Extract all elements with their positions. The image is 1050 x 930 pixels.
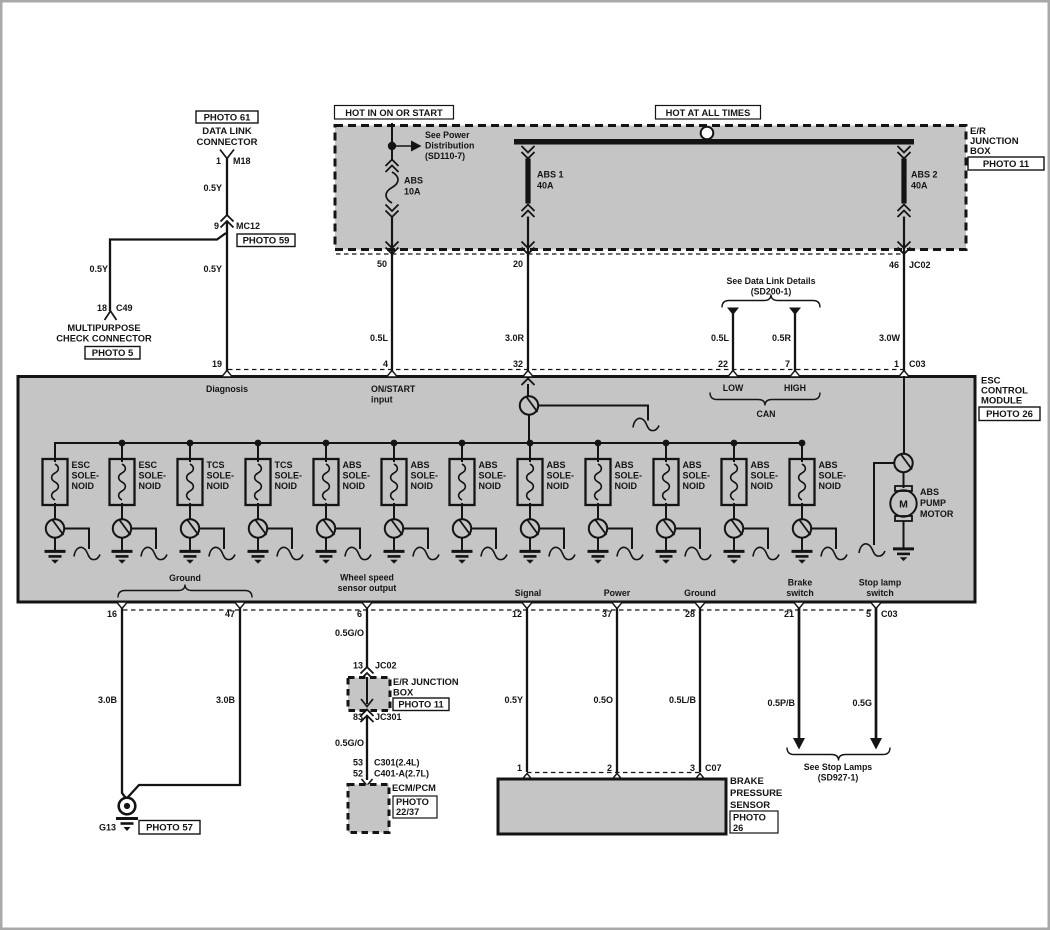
svg-text:NOID: NOID	[343, 481, 366, 491]
fuse ABS 2 40A	[898, 146, 911, 153]
svg-text:switch: switch	[786, 588, 813, 598]
svg-text:22/37: 22/37	[396, 807, 419, 817]
svg-text:switch: switch	[866, 588, 893, 598]
driver transistor for solenoid #4	[257, 503, 259, 520]
svg-text:ABS: ABS	[343, 460, 362, 470]
brake pressure sensor box	[498, 779, 726, 834]
svg-text:See Power: See Power	[425, 130, 470, 140]
svg-text:28: 28	[685, 609, 695, 619]
svg-text:NOID: NOID	[72, 481, 95, 491]
module bottom pin carets	[117, 602, 128, 609]
svg-text:SOLE-: SOLE-	[615, 471, 643, 481]
svg-text:1: 1	[216, 156, 221, 166]
svg-text:0.5Y: 0.5Y	[504, 695, 523, 705]
wire pin21 to stop lamps, 0.5P/B	[798, 608, 801, 740]
driver transistor for solenoid #3	[189, 503, 191, 520]
module top pin carets	[222, 371, 233, 378]
svg-text:SOLE-: SOLE-	[683, 471, 711, 481]
svg-text:NOID: NOID	[275, 481, 298, 491]
ABS pump motor M	[903, 472, 905, 488]
svg-text:C03: C03	[881, 609, 898, 619]
collector break squiggle for solenoid #8	[540, 529, 565, 550]
connector JC02 pin 13	[361, 667, 374, 674]
driver transistor for solenoid #5	[325, 503, 327, 520]
solenoid supply bus	[55, 443, 802, 459]
collector break squiggle for solenoid #12	[812, 529, 837, 550]
svg-text:PRESSURE: PRESSURE	[730, 788, 782, 799]
svg-text:NOID: NOID	[819, 481, 842, 491]
solenoid ABS #5	[325, 443, 327, 462]
ground G13	[119, 798, 136, 815]
svg-text:1: 1	[517, 763, 522, 773]
ground for solenoid #11	[733, 538, 735, 551]
svg-text:NOID: NOID	[751, 481, 774, 491]
driver transistor for solenoid #1	[54, 503, 56, 520]
svg-text:0.5R: 0.5R	[772, 333, 792, 343]
collector wire with break squiggle	[539, 406, 649, 421]
svg-text:40A: 40A	[537, 181, 554, 191]
svg-text:PHOTO 5: PHOTO 5	[92, 348, 134, 359]
svg-text:13: 13	[353, 661, 363, 671]
svg-text:0.5G/O: 0.5G/O	[335, 628, 364, 638]
collector break squiggle for solenoid #4	[268, 529, 293, 550]
label PHOTO 22/37	[393, 796, 437, 818]
wire M18 to MC12, 0.5Y	[226, 159, 228, 217]
svg-text:JC02: JC02	[909, 260, 931, 270]
label PHOTO 57	[139, 821, 200, 835]
svg-text:JC301: JC301	[375, 712, 402, 722]
ESC control module box	[18, 377, 975, 603]
svg-text:BRAKE: BRAKE	[730, 776, 764, 787]
svg-text:ESC: ESC	[139, 460, 158, 470]
solenoid ABS #12	[801, 443, 803, 462]
fuse ABS 1 40A	[522, 146, 535, 153]
svg-text:ABS: ABS	[819, 460, 838, 470]
svg-text:NOID: NOID	[479, 481, 502, 491]
CAN LOW stub wire 0.5L	[727, 308, 739, 316]
svg-text:ON/START: ON/START	[371, 384, 416, 394]
collector break squiggle for solenoid #2	[132, 529, 157, 550]
svg-text:MC12: MC12	[236, 221, 260, 231]
svg-text:0.5G: 0.5G	[852, 698, 872, 708]
wire pin46 to module pin1, 3.0W	[903, 255, 905, 374]
svg-text:1: 1	[894, 359, 899, 369]
svg-text:MULTIPURPOSE: MULTIPURPOSE	[67, 323, 140, 333]
wire pin47 to G13, 3.0B	[128, 608, 240, 797]
power bus bar	[514, 139, 914, 145]
label HOT IN ON OR START	[335, 106, 454, 120]
svg-text:5: 5	[866, 609, 871, 619]
connector strip dashed line above sensor	[527, 772, 700, 774]
solenoid ESC #2	[121, 443, 123, 462]
svg-text:ABS 2: ABS 2	[911, 170, 938, 180]
ground for solenoid #2	[121, 538, 123, 551]
stop lamp switch sense wire with break squiggle	[874, 463, 895, 545]
svg-text:CHECK CONNECTOR: CHECK CONNECTOR	[56, 334, 152, 344]
svg-text:ABS: ABS	[615, 460, 634, 470]
svg-text:(SD110-7): (SD110-7)	[425, 151, 465, 161]
svg-text:0.5Y: 0.5Y	[203, 264, 222, 274]
svg-text:26: 26	[733, 823, 743, 833]
svg-text:(SD927-1): (SD927-1)	[818, 773, 859, 783]
solenoid ABS #11	[733, 443, 735, 462]
svg-text:0.5L: 0.5L	[711, 333, 730, 343]
svg-text:ABS: ABS	[479, 460, 498, 470]
svg-text:SOLE-: SOLE-	[411, 471, 439, 481]
connector M18 pin 1	[220, 150, 234, 159]
svg-text:BOX: BOX	[970, 146, 991, 157]
connector strip line below junction box	[336, 253, 903, 255]
ground for solenoid #12	[801, 538, 803, 551]
svg-text:10A: 10A	[404, 187, 421, 197]
svg-text:6: 6	[357, 609, 362, 619]
svg-text:53: 53	[353, 758, 363, 768]
svg-text:Brake: Brake	[788, 578, 813, 588]
svg-text:C07: C07	[705, 763, 722, 773]
collector break squiggle for solenoid #3	[200, 529, 225, 550]
wire pin5 to stop lamps, 0.5G	[875, 608, 878, 740]
collector break squiggle for solenoid #9	[608, 529, 633, 550]
svg-text:46: 46	[889, 260, 899, 270]
collector break squiggle for solenoid #7	[472, 529, 497, 550]
ground for solenoid #8	[529, 538, 531, 551]
svg-text:E/R JUNCTION: E/R JUNCTION	[393, 677, 459, 687]
svg-text:Ground: Ground	[169, 573, 201, 583]
internal wire arrow	[366, 677, 368, 704]
collector break squiggle for solenoid #5	[336, 529, 361, 550]
svg-text:ABS 1: ABS 1	[537, 170, 564, 180]
label PHOTO 26 (sensor)	[730, 811, 778, 833]
svg-text:C301(2.4L): C301(2.4L)	[374, 758, 420, 768]
label PHOTO 11 (lower)	[393, 698, 449, 711]
svg-text:0.5G/O: 0.5G/O	[335, 738, 364, 748]
svg-text:NOID: NOID	[207, 481, 230, 491]
junction node dot	[388, 142, 396, 150]
svg-text:MODULE: MODULE	[981, 396, 1022, 407]
wire fuse ABS1 to pin 20	[527, 217, 529, 257]
brace over CAN stub wires	[722, 295, 820, 308]
svg-text:22: 22	[718, 359, 728, 369]
svg-text:3.0W: 3.0W	[879, 333, 901, 343]
svg-text:JC02: JC02	[375, 661, 397, 671]
solenoid ABS #6	[393, 443, 395, 462]
branch wire to multipurpose check connector, 0.5Y	[110, 233, 226, 311]
svg-text:40A: 40A	[911, 181, 928, 191]
wire fuse ABS10A to pin 50	[391, 217, 393, 257]
svg-text:SOLE-: SOLE-	[751, 471, 779, 481]
wire pin20 to module pin32, 3.0R	[527, 255, 529, 374]
svg-text:0.5P/B: 0.5P/B	[767, 698, 795, 708]
svg-text:HIGH: HIGH	[784, 383, 806, 393]
wire ignition feed into box	[391, 123, 393, 160]
ground for solenoid #6	[393, 538, 395, 551]
svg-text:C401-A(2.7L): C401-A(2.7L)	[374, 769, 429, 779]
svg-text:SOLE-: SOLE-	[207, 471, 235, 481]
svg-text:G13: G13	[99, 823, 116, 833]
wire fuse ABS2 to pin 46	[903, 217, 905, 257]
svg-text:12: 12	[512, 609, 522, 619]
svg-text:Diagnosis: Diagnosis	[206, 384, 248, 394]
ground for solenoid #5	[325, 538, 327, 551]
svg-text:Signal: Signal	[515, 588, 541, 598]
svg-text:47: 47	[225, 609, 235, 619]
solenoid ABS #10	[665, 443, 667, 462]
wire MC12 to module pin 19, 0.5Y	[226, 221, 228, 374]
svg-text:7: 7	[785, 359, 790, 369]
svg-text:HOT AT ALL TIMES: HOT AT ALL TIMES	[666, 108, 751, 118]
ground for solenoid #3	[189, 538, 191, 551]
driver transistor for solenoid #12	[801, 503, 803, 520]
svg-text:LOW: LOW	[723, 383, 744, 393]
svg-text:PHOTO 59: PHOTO 59	[243, 236, 290, 247]
svg-text:83: 83	[353, 712, 363, 722]
svg-text:PHOTO 57: PHOTO 57	[146, 823, 193, 834]
driver transistor for solenoid #8	[529, 503, 531, 520]
svg-text:0.5Y: 0.5Y	[89, 264, 108, 274]
svg-text:PHOTO 11: PHOTO 11	[983, 159, 1030, 170]
svg-text:NOID: NOID	[411, 481, 434, 491]
pin caret into ECM	[362, 779, 373, 786]
svg-text:sensor output: sensor output	[338, 583, 397, 593]
svg-text:ABS: ABS	[920, 487, 939, 497]
ground for solenoid #4	[257, 538, 259, 551]
connector JC301 pin 83	[361, 710, 374, 717]
ground for solenoid #7	[461, 538, 463, 551]
svg-text:Power: Power	[604, 588, 631, 598]
svg-text:C49: C49	[116, 303, 133, 313]
E/R junction box (engine room, top)	[335, 126, 966, 250]
connector strip dashed line below module	[123, 609, 875, 611]
svg-text:ABS: ABS	[683, 460, 702, 470]
driver transistor for solenoid #2	[121, 503, 123, 520]
brace see stop lamps	[787, 748, 890, 761]
svg-text:TCS: TCS	[207, 460, 225, 470]
svg-text:0.5Y: 0.5Y	[203, 183, 222, 193]
svg-text:52: 52	[353, 769, 363, 779]
svg-text:20: 20	[513, 259, 523, 269]
svg-text:ABS: ABS	[404, 176, 423, 186]
label PHOTO 59	[237, 234, 295, 247]
svg-text:21: 21	[784, 609, 794, 619]
svg-text:16: 16	[107, 609, 117, 619]
svg-text:SOLE-: SOLE-	[547, 471, 575, 481]
svg-text:SOLE-: SOLE-	[72, 471, 100, 481]
svg-text:CONNECTOR: CONNECTOR	[196, 137, 257, 148]
svg-text:NOID: NOID	[615, 481, 638, 491]
CAN brace	[710, 393, 820, 406]
svg-text:MOTOR: MOTOR	[920, 509, 954, 519]
driver transistor for solenoid #10	[665, 503, 667, 520]
svg-text:NOID: NOID	[683, 481, 706, 491]
svg-text:ABS: ABS	[751, 460, 770, 470]
svg-text:PHOTO 11: PHOTO 11	[398, 700, 443, 710]
svg-text:PUMP: PUMP	[920, 498, 946, 508]
solenoid TCS #3	[189, 443, 191, 462]
svg-text:PHOTO 26: PHOTO 26	[986, 409, 1033, 420]
wire pin16 to G13, 3.0B	[122, 608, 127, 799]
svg-text:0.5L/B: 0.5L/B	[669, 695, 697, 705]
svg-text:ABS: ABS	[547, 460, 566, 470]
wire pin37 to sensor pin2, 0.5O	[616, 608, 618, 772]
svg-text:37: 37	[602, 609, 612, 619]
ECM/PCM box	[348, 785, 389, 833]
svg-text:See Data Link Details: See Data Link Details	[727, 276, 816, 286]
svg-text:M18: M18	[233, 156, 251, 166]
ABS pump transistor	[903, 376, 905, 455]
svg-text:SOLE-: SOLE-	[819, 471, 847, 481]
svg-text:ESC: ESC	[72, 460, 91, 470]
driver transistor for solenoid #7	[461, 503, 463, 520]
svg-text:Stop lamp: Stop lamp	[859, 578, 902, 588]
svg-text:BOX: BOX	[393, 688, 414, 698]
label PHOTO 61	[196, 111, 258, 123]
svg-text:TCS: TCS	[275, 460, 293, 470]
wire pin6 to JC02, 0.5G/O	[366, 608, 368, 668]
ground for solenoid #10	[665, 538, 667, 551]
solenoid ABS #8	[529, 443, 531, 462]
svg-text:HOT IN ON OR START: HOT IN ON OR START	[345, 108, 443, 118]
pin32 input transistor	[522, 379, 535, 386]
svg-text:CAN: CAN	[756, 409, 775, 419]
ground for solenoid #9	[597, 538, 599, 551]
collector break squiggle for solenoid #10	[676, 529, 701, 550]
svg-text:18: 18	[97, 303, 107, 313]
svg-text:Ground: Ground	[684, 588, 716, 598]
arrow to power distribution	[392, 145, 412, 147]
svg-text:C03: C03	[909, 359, 926, 369]
label HOT AT ALL TIMES	[656, 106, 761, 120]
svg-text:Wheel speed: Wheel speed	[340, 573, 394, 583]
svg-text:PHOTO: PHOTO	[733, 813, 766, 823]
svg-text:3.0R: 3.0R	[505, 333, 525, 343]
svg-text:SOLE-: SOLE-	[479, 471, 507, 481]
battery feed terminal circle	[701, 127, 714, 140]
svg-text:SOLE-: SOLE-	[275, 471, 303, 481]
collector break squiggle for solenoid #1	[65, 529, 90, 550]
solenoid ABS #7	[461, 443, 463, 462]
connector strip dashed line above module	[228, 369, 903, 371]
label PHOTO 5	[85, 347, 140, 360]
svg-text:32: 32	[513, 359, 523, 369]
svg-text:DATA LINK: DATA LINK	[202, 126, 252, 137]
svg-text:NOID: NOID	[139, 481, 162, 491]
sensor pin carets	[522, 774, 533, 781]
wire pin28 to sensor pin3, 0.5L/B	[699, 608, 701, 772]
svg-text:3.0B: 3.0B	[216, 695, 236, 705]
svg-text:Distribution: Distribution	[425, 141, 474, 151]
svg-text:3: 3	[690, 763, 695, 773]
svg-text:4: 4	[383, 359, 388, 369]
svg-text:2: 2	[607, 763, 612, 773]
svg-text:SOLE-: SOLE-	[343, 471, 371, 481]
connector C49 pin 18	[105, 311, 117, 320]
driver transistor for solenoid #11	[733, 503, 735, 520]
ABS pump motor ground	[903, 521, 905, 548]
svg-text:0.5O: 0.5O	[593, 695, 613, 705]
svg-text:See Stop Lamps: See Stop Lamps	[804, 762, 873, 772]
svg-text:M: M	[899, 499, 908, 511]
svg-text:ABS: ABS	[411, 460, 430, 470]
E/R junction box (small)	[348, 678, 390, 711]
fuse ABS 10A	[386, 160, 399, 167]
solenoid ABS #9	[597, 443, 599, 462]
solenoid ESC #1	[54, 443, 56, 462]
wire pin50 to module pin4, 0.5L	[391, 255, 393, 374]
svg-text:SOLE-: SOLE-	[139, 471, 167, 481]
driver transistor for solenoid #9	[597, 503, 599, 520]
wire JC301 to ECM, 0.5G/O	[366, 716, 368, 781]
solenoid TCS #4	[257, 443, 259, 462]
svg-text:SENSOR: SENSOR	[730, 800, 770, 811]
svg-text:PHOTO 61: PHOTO 61	[204, 112, 252, 123]
svg-text:3.0B: 3.0B	[98, 695, 118, 705]
svg-text:input: input	[371, 395, 393, 405]
CAN HIGH stub wire 0.5R	[789, 308, 801, 316]
wire pin12 to sensor pin1, 0.5Y	[526, 608, 528, 772]
svg-text:19: 19	[212, 359, 222, 369]
svg-text:NOID: NOID	[547, 481, 570, 491]
wire transistor to solenoid bus	[528, 415, 530, 445]
driver transistor for solenoid #6	[393, 503, 395, 520]
svg-text:50: 50	[377, 259, 387, 269]
svg-text:9: 9	[214, 221, 219, 231]
connector MC12	[221, 215, 234, 222]
svg-text:PHOTO: PHOTO	[396, 797, 429, 807]
svg-text:0.5L: 0.5L	[370, 333, 389, 343]
collector break squiggle for solenoid #6	[404, 529, 429, 550]
ground for solenoid #1	[54, 538, 56, 551]
collector break squiggle for solenoid #11	[744, 529, 769, 550]
svg-text:ECM/PCM: ECM/PCM	[392, 783, 436, 793]
